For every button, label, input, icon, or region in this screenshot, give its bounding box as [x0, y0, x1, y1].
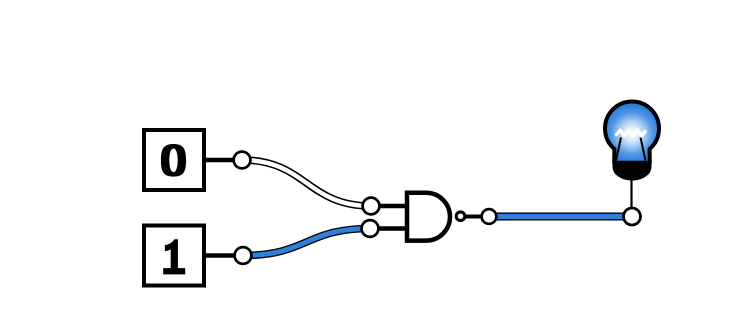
wire (signal 1, blue) from toggle-1 port to gate input B — [243, 229, 370, 256]
wire from bulb base to bulb terminal node — [630, 178, 632, 208]
bulb screw base (black) — [614, 162, 651, 180]
node gate input B — [362, 220, 379, 237]
wire (signal 0, white) from toggle-0 port to gate input A — [242, 160, 371, 206]
wire (signal 1, blue) from gate output node to bulb terminal — [489, 213, 632, 221]
node gate output port — [482, 209, 497, 224]
bulb glass (globe merged with neck) — [605, 102, 659, 163]
wire stub gate input A — [371, 204, 407, 209]
wire stub gate input B — [370, 226, 407, 231]
toggle input 0 — [144, 130, 204, 190]
filament (white zigzag) — [617, 130, 646, 135]
wire from toggle 0 to its output port — [204, 158, 242, 163]
toggle input 1 — [144, 226, 204, 286]
light bulb L1 (lit) — [605, 102, 659, 180]
wire from toggle 1 to its output port — [204, 253, 243, 258]
filament support wires — [616, 138, 621, 161]
node bulb terminal — [624, 208, 641, 225]
NAND gate U1 body — [407, 193, 450, 241]
node toggle-0 output port — [234, 152, 251, 169]
node toggle-1 output port — [235, 247, 252, 264]
node gate input A — [363, 198, 380, 215]
wire from bubble to gate output node — [466, 215, 482, 219]
NAND gate U1 inversion bubble — [456, 212, 465, 221]
